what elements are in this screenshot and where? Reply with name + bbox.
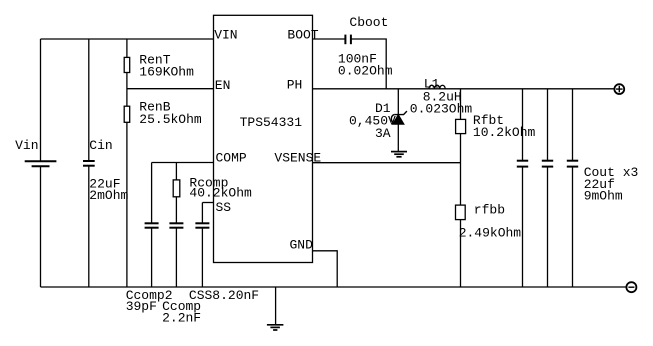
svg-text:Vin: Vin xyxy=(15,138,38,153)
svg-text:VIN: VIN xyxy=(214,27,237,42)
svg-text:COMP: COMP xyxy=(216,150,247,165)
svg-text:3A: 3A xyxy=(375,126,391,141)
svg-text:TPS54331: TPS54331 xyxy=(240,115,303,130)
svg-text:40.2kOhm: 40.2kOhm xyxy=(189,186,252,201)
svg-text:2.49kOhm: 2.49kOhm xyxy=(459,226,522,241)
svg-text:0.02Ohm: 0.02Ohm xyxy=(338,64,393,79)
svg-text:rfbb: rfbb xyxy=(474,202,505,217)
svg-text:39pF: 39pF xyxy=(126,299,157,314)
svg-text:Cin: Cin xyxy=(89,138,112,153)
svg-text:VSENSE: VSENSE xyxy=(274,150,321,165)
svg-text:PH: PH xyxy=(287,77,303,92)
svg-text:SS: SS xyxy=(216,200,232,215)
svg-text:2.2nF: 2.2nF xyxy=(162,311,201,326)
svg-text:9mOhm: 9mOhm xyxy=(584,189,623,204)
svg-text:169KOhm: 169KOhm xyxy=(139,64,194,79)
svg-text:10.2kOhm: 10.2kOhm xyxy=(473,125,536,140)
svg-text:BOOT: BOOT xyxy=(287,27,318,42)
svg-text:Cboot: Cboot xyxy=(349,15,388,30)
svg-text:25.5kOhm: 25.5kOhm xyxy=(139,112,202,127)
svg-text:EN: EN xyxy=(215,78,231,93)
svg-text:GND: GND xyxy=(290,238,314,253)
svg-text:0.023Ohm: 0.023Ohm xyxy=(410,101,473,116)
svg-text:2mOhm: 2mOhm xyxy=(89,188,128,203)
